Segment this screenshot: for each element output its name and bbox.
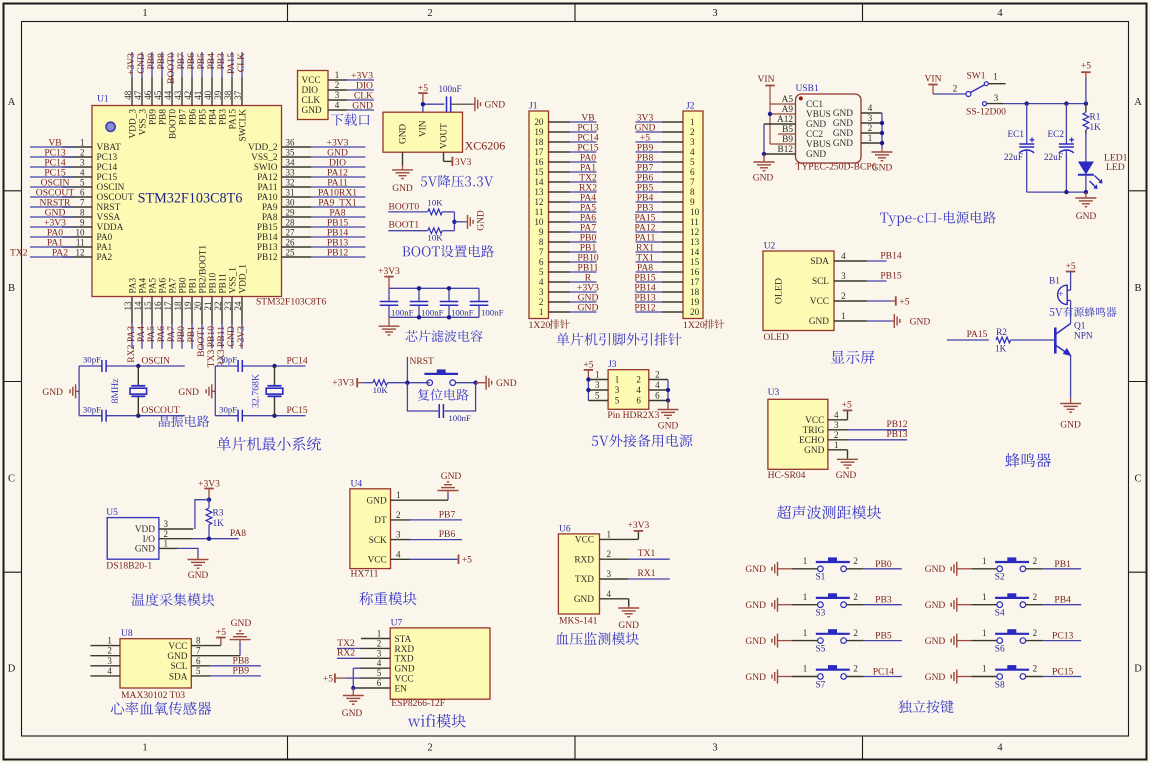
svg-text:VBUS: VBUS xyxy=(806,110,831,120)
wire boot0 to node xyxy=(442,212,456,231)
temp U5 body xyxy=(106,508,159,559)
switch key S2 -> PB1 xyxy=(925,556,1081,583)
svg-text:PB7: PB7 xyxy=(178,109,188,125)
svg-text:32: 32 xyxy=(286,177,295,187)
svg-text:1: 1 xyxy=(690,117,695,127)
mcu U1 pin 34 SWIO xyxy=(254,157,366,173)
mcu U1 pin 47 VSS_3 xyxy=(133,52,149,135)
capacitor EC1 22uF xyxy=(1004,104,1035,193)
download header pin 1 VCC xyxy=(302,70,375,86)
wire boot1 to node xyxy=(442,222,465,231)
svg-text:100nF: 100nF xyxy=(438,84,461,94)
svg-text:GND: GND xyxy=(578,302,599,313)
svg-text:PB14: PB14 xyxy=(257,233,278,243)
svg-text:NRST: NRST xyxy=(410,357,434,367)
svg-text:1: 1 xyxy=(993,72,998,82)
svg-text:VDD_1: VDD_1 xyxy=(238,264,248,294)
j3 left rail xyxy=(586,377,590,400)
svg-text:MKS-141: MKS-141 xyxy=(559,615,598,626)
mcu U1 pin 16 PA6 xyxy=(153,277,169,348)
svg-text:+5: +5 xyxy=(583,360,593,370)
max30102 model xyxy=(121,690,185,701)
svg-text:16: 16 xyxy=(690,267,700,277)
svg-text:GND: GND xyxy=(574,595,594,605)
svg-text:PA12: PA12 xyxy=(257,173,278,183)
mcu U1 pin 2 PC13 xyxy=(30,147,118,163)
header J1 pin 2 xyxy=(539,292,599,307)
mcu U1 pin 8 VSSA xyxy=(30,207,121,223)
caption temp xyxy=(132,593,215,606)
svg-text:2: 2 xyxy=(655,370,660,380)
svg-text:B: B xyxy=(8,283,15,294)
svg-text:U6: U6 xyxy=(559,524,571,534)
svg-text:PA9: PA9 xyxy=(262,203,278,213)
svg-text:GND: GND xyxy=(477,210,487,231)
mcu U1 pin 15 PA5 xyxy=(143,277,159,348)
svg-text:A: A xyxy=(1134,97,1142,108)
max30102 pin name GND xyxy=(167,646,201,662)
ground filter xyxy=(379,317,400,335)
header J1 pin 5 xyxy=(539,262,599,277)
mcu U1 model label xyxy=(256,298,326,308)
svg-text:28: 28 xyxy=(286,217,296,227)
header J2 pin 19 xyxy=(634,292,699,307)
mcu U1 pin 33 PA12 xyxy=(257,167,365,183)
oled model xyxy=(764,333,789,343)
download header pin 3 CLK xyxy=(302,90,375,106)
svg-text:GND: GND xyxy=(925,673,946,683)
power +5 buzzer xyxy=(1066,262,1076,290)
net label PB14 xyxy=(867,250,902,261)
mcu U1 designator xyxy=(97,95,109,105)
svg-text:PC15: PC15 xyxy=(97,173,118,183)
svg-text:U5: U5 xyxy=(106,508,118,518)
svg-text:+5: +5 xyxy=(216,628,226,638)
svg-text:R3: R3 xyxy=(213,509,224,519)
svg-text:1: 1 xyxy=(335,70,340,80)
caption crystal xyxy=(159,415,209,427)
svg-text:GND: GND xyxy=(399,124,409,144)
svg-text:30: 30 xyxy=(286,197,296,207)
svg-text:100nF: 100nF xyxy=(391,307,414,317)
svg-text:3: 3 xyxy=(615,385,620,395)
esp pin name 1 STA xyxy=(377,629,412,645)
svg-text:19: 19 xyxy=(183,301,193,311)
svg-text:26: 26 xyxy=(286,237,296,247)
j3 right rail xyxy=(666,380,670,403)
mcu U1 pin 25 PB12 xyxy=(257,247,366,263)
svg-text:45: 45 xyxy=(153,90,163,100)
svg-text:PB6: PB6 xyxy=(188,109,198,125)
svg-text:GND: GND xyxy=(392,184,413,194)
svg-text:TYPEC-250D-BCP6: TYPEC-250D-BCP6 xyxy=(796,162,877,173)
svg-text:14: 14 xyxy=(534,177,544,187)
svg-text:J2: J2 xyxy=(686,102,695,112)
svg-text:SWCLK: SWCLK xyxy=(238,109,248,142)
temp pin 1 GND xyxy=(135,539,168,555)
svg-text:1: 1 xyxy=(803,628,808,638)
header J1 pin 17 xyxy=(534,142,599,157)
svg-text:21: 21 xyxy=(203,302,213,311)
svg-text:11: 11 xyxy=(535,207,544,217)
blood pin 2 RXD xyxy=(574,549,628,565)
header J1 pin 18 xyxy=(534,132,599,147)
svg-text:GND: GND xyxy=(809,317,829,327)
svg-text:RXD: RXD xyxy=(574,555,594,565)
switch key S3 -> PB3 xyxy=(745,592,901,619)
svg-text:U8: U8 xyxy=(121,629,133,639)
header J1 pin 6 xyxy=(539,252,599,267)
svg-text:4: 4 xyxy=(997,743,1003,754)
mcu U1 pin 23 VSS_1 xyxy=(223,267,239,349)
svg-text:5: 5 xyxy=(539,267,544,277)
usb pad B5 xyxy=(778,125,796,135)
svg-text:GND: GND xyxy=(753,174,774,184)
svg-text:PB9: PB9 xyxy=(233,666,250,677)
mcu U1 pin 43 PB7 xyxy=(173,52,189,125)
oled pin 1 GND xyxy=(809,311,867,327)
usb pad A12 xyxy=(764,115,796,125)
svg-text:5: 5 xyxy=(615,396,620,406)
ultrasonic pin 1 GND xyxy=(804,440,847,456)
ground blood xyxy=(618,599,639,631)
svg-text:2: 2 xyxy=(107,646,112,656)
svg-text:VDD: VDD xyxy=(135,525,155,535)
caption esp xyxy=(408,714,466,728)
hx711 pin 3 SCK xyxy=(369,530,410,546)
svg-text:GND: GND xyxy=(833,109,853,119)
esp pin name 2 RXD xyxy=(377,638,415,654)
svg-text:PA8: PA8 xyxy=(262,213,278,223)
mcu U1 pin 3 PC14 xyxy=(30,157,118,173)
svg-text:PA0: PA0 xyxy=(97,233,113,243)
svg-text:VCC: VCC xyxy=(805,416,824,426)
ultrasonic pin 4 VCC xyxy=(805,410,847,426)
svg-text:2: 2 xyxy=(335,80,340,90)
svg-text:GND: GND xyxy=(178,388,199,398)
svg-text:PA7: PA7 xyxy=(168,277,178,293)
svg-text:48: 48 xyxy=(123,90,133,100)
svg-text:ESP8266-12F: ESP8266-12F xyxy=(391,698,445,709)
svg-text:S8: S8 xyxy=(995,680,1005,690)
j3 row 2 xyxy=(588,380,668,395)
svg-text:VCC: VCC xyxy=(395,675,414,685)
svg-text:35: 35 xyxy=(286,147,296,157)
header J1 pin 10 xyxy=(534,212,596,227)
usb model xyxy=(796,162,877,173)
wire regulator vout xyxy=(444,152,453,161)
usb pin name GND xyxy=(806,150,826,160)
svg-text:PA1: PA1 xyxy=(97,243,113,253)
ground usb right xyxy=(872,152,893,174)
svg-text:2: 2 xyxy=(853,628,858,638)
net label PB13 xyxy=(848,430,908,440)
svg-text:30pF: 30pF xyxy=(219,404,237,414)
header J1 pin 4 xyxy=(539,272,597,287)
svg-text:4: 4 xyxy=(868,103,873,113)
svg-text:2: 2 xyxy=(1033,592,1038,602)
ground ultrasonic xyxy=(836,450,858,481)
svg-text:PB12: PB12 xyxy=(257,253,278,263)
svg-text:44: 44 xyxy=(163,90,173,100)
svg-text:GND: GND xyxy=(910,317,931,327)
svg-text:2: 2 xyxy=(80,147,85,157)
esp pin name 5 VCC xyxy=(377,668,414,684)
ultrasonic pin 3 TRIG xyxy=(803,420,848,436)
capacitor 100nF filter 2 xyxy=(410,286,444,319)
svg-text:1K: 1K xyxy=(213,519,225,529)
power +5 j3 xyxy=(583,360,593,379)
net label PC14 xyxy=(287,356,308,366)
caption buzzer xyxy=(1005,453,1051,467)
power +5 ultrasonic xyxy=(842,401,853,420)
capacitor EC2 22uF xyxy=(1044,104,1074,193)
regulator U9 body xyxy=(383,112,463,152)
svg-text:VIN: VIN xyxy=(758,75,775,85)
wire regulator gnd pin xyxy=(402,152,404,165)
capacitor 30pF bottom left xyxy=(83,404,106,421)
svg-text:10K: 10K xyxy=(427,197,443,207)
mcu U1 pin 26 PB13 xyxy=(257,237,366,253)
net label OSCOUT xyxy=(142,406,180,416)
svg-text:40: 40 xyxy=(203,90,213,100)
oled pin 2 VCC xyxy=(810,291,867,307)
svg-text:PB7: PB7 xyxy=(439,509,456,520)
usb pin name CC2 xyxy=(806,130,823,140)
svg-text:PB4: PB4 xyxy=(208,109,218,125)
svg-text:B: B xyxy=(1134,283,1141,294)
svg-text:GND: GND xyxy=(42,388,63,398)
svg-text:RX2: RX2 xyxy=(337,648,355,659)
mcu U1 pin 41 PB5 xyxy=(193,52,209,125)
svg-text:OLED: OLED xyxy=(774,278,785,304)
header J2 body xyxy=(683,102,703,319)
svg-text:41: 41 xyxy=(193,91,203,100)
svg-text:XC6206: XC6206 xyxy=(465,139,506,153)
usb pin name GND xyxy=(806,120,826,130)
esp model xyxy=(391,698,445,709)
ground oled xyxy=(867,314,930,328)
svg-text:PB2/BOOT1: PB2/BOOT1 xyxy=(198,245,208,294)
svg-text:PA8: PA8 xyxy=(230,528,246,539)
svg-text:SCL: SCL xyxy=(170,662,187,672)
svg-text:SW1: SW1 xyxy=(967,71,986,81)
header J1 pin 8 xyxy=(539,232,597,247)
svg-text:2: 2 xyxy=(1033,556,1038,566)
mcu U1 pin 17 PA7 xyxy=(163,277,179,348)
svg-text:25: 25 xyxy=(286,247,296,257)
mcu U1 pin 36 VDD_2 xyxy=(248,137,365,153)
header J2 pin 15 xyxy=(636,252,700,267)
svg-text:+3V3: +3V3 xyxy=(378,267,400,277)
svg-text:PC14: PC14 xyxy=(287,356,308,366)
svg-text:2: 2 xyxy=(953,84,958,94)
svg-text:GND: GND xyxy=(745,637,766,647)
svg-text:19: 19 xyxy=(690,297,700,307)
svg-text:7: 7 xyxy=(539,247,544,257)
svg-text:3: 3 xyxy=(377,648,382,658)
svg-text:+5: +5 xyxy=(899,297,909,307)
svg-text:31: 31 xyxy=(286,187,295,197)
svg-text:J3: J3 xyxy=(608,360,617,370)
regulator pin name VOUT xyxy=(440,123,450,149)
svg-text:43: 43 xyxy=(173,90,183,100)
header J1 pin 7 xyxy=(539,242,597,257)
svg-text:VIN: VIN xyxy=(925,74,942,84)
mcu U1 pin 42 PB6 xyxy=(183,52,199,125)
svg-text:PB10: PB10 xyxy=(208,272,218,293)
svg-text:+3V3: +3V3 xyxy=(236,326,247,348)
svg-text:U2: U2 xyxy=(764,242,776,252)
svg-text:GND: GND xyxy=(833,139,853,149)
svg-text:22: 22 xyxy=(213,302,223,311)
svg-text:1X20: 1X20 xyxy=(529,320,551,331)
header J2 pin 9 xyxy=(636,192,696,207)
svg-text:46: 46 xyxy=(143,90,153,100)
svg-text:1: 1 xyxy=(615,375,620,385)
svg-text:23: 23 xyxy=(223,301,233,311)
svg-text:DS18B20-1: DS18B20-1 xyxy=(106,560,152,571)
svg-text:15: 15 xyxy=(690,257,700,267)
svg-text:+5: +5 xyxy=(1081,62,1091,72)
svg-text:22uF: 22uF xyxy=(1044,153,1063,163)
svg-text:2: 2 xyxy=(377,638,382,648)
switch key S5 -> PB5 xyxy=(745,628,901,655)
svg-text:PA15: PA15 xyxy=(967,330,988,340)
svg-text:1: 1 xyxy=(595,370,600,380)
svg-text:RXD: RXD xyxy=(395,645,415,655)
svg-text:OSCIN: OSCIN xyxy=(97,183,125,193)
header J2 pin 18 xyxy=(634,282,699,297)
svg-text:4: 4 xyxy=(636,385,641,395)
svg-text:4: 4 xyxy=(107,666,112,676)
svg-text:32.768K: 32.768K xyxy=(251,374,262,408)
svg-text:PC14: PC14 xyxy=(97,163,118,173)
svg-text:SCK: SCK xyxy=(369,536,387,546)
led LED1 xyxy=(1078,134,1128,192)
svg-text:100nF: 100nF xyxy=(451,307,474,317)
svg-text:GND: GND xyxy=(745,673,766,683)
mcu U1 pin 40 PB4 xyxy=(203,52,219,125)
svg-text:EC1: EC1 xyxy=(1007,130,1024,140)
resistor 10K reset xyxy=(373,380,389,395)
switch reset button xyxy=(424,369,458,385)
svg-text:A: A xyxy=(8,97,16,108)
svg-text:PA4: PA4 xyxy=(138,277,148,293)
net label PB15 xyxy=(867,270,902,281)
svg-text:PB14: PB14 xyxy=(880,250,902,261)
svg-text:8: 8 xyxy=(80,207,85,217)
svg-text:2: 2 xyxy=(1033,628,1038,638)
svg-text:STM32F103C8T6: STM32F103C8T6 xyxy=(138,191,243,207)
svg-text:9: 9 xyxy=(539,227,544,237)
svg-text:TXD: TXD xyxy=(575,575,594,585)
mcu U1 pin 32 PA11 xyxy=(258,177,366,193)
svg-text:20: 20 xyxy=(690,307,700,317)
svg-text:STM32F103C8T6: STM32F103C8T6 xyxy=(256,298,326,308)
svg-text:2: 2 xyxy=(427,8,432,19)
svg-text:PB15: PB15 xyxy=(880,270,902,281)
svg-text:VOUT: VOUT xyxy=(440,123,450,149)
header J2 pin 16 xyxy=(636,262,700,277)
capacitor 30pF top right xyxy=(219,355,242,372)
svg-text:GND: GND xyxy=(925,637,946,647)
crystal rails right xyxy=(215,364,305,418)
svg-text:17: 17 xyxy=(163,301,173,311)
svg-text:4: 4 xyxy=(690,147,695,157)
svg-text:3V3: 3V3 xyxy=(455,158,472,168)
svg-text:PB11: PB11 xyxy=(218,273,228,294)
j3 row 1 xyxy=(588,370,668,385)
header J1 pin 1 xyxy=(539,302,599,317)
svg-text:PA10: PA10 xyxy=(257,193,278,203)
power +5 led xyxy=(1081,62,1091,104)
svg-text:18: 18 xyxy=(534,137,544,147)
regulator model xyxy=(465,139,506,153)
header J1 body xyxy=(529,102,549,319)
ground regulator cap xyxy=(472,97,505,111)
svg-text:NPN: NPN xyxy=(1074,331,1093,341)
blood pin 4 GND xyxy=(574,589,629,605)
svg-text:SS-12D00: SS-12D00 xyxy=(966,106,1006,117)
header J2 model xyxy=(683,319,724,331)
svg-text:1: 1 xyxy=(982,592,987,602)
mcu U1 name xyxy=(138,191,243,207)
temp pin 3 VDD xyxy=(135,519,169,535)
svg-text:PB6: PB6 xyxy=(439,529,456,540)
svg-text:4: 4 xyxy=(335,100,340,110)
ground max30102 xyxy=(191,619,251,656)
capacitor 30pF bottom right xyxy=(219,404,242,421)
svg-text:2: 2 xyxy=(853,664,858,674)
svg-text:S3: S3 xyxy=(816,609,826,619)
svg-text:1: 1 xyxy=(539,307,544,317)
svg-text:PB1: PB1 xyxy=(188,277,198,293)
usb pin name GND right xyxy=(833,109,853,119)
svg-text:6: 6 xyxy=(655,391,660,401)
svg-text:13: 13 xyxy=(123,301,133,311)
resistor 10K boot1 xyxy=(427,228,443,243)
svg-text:GND: GND xyxy=(231,619,252,629)
caption typec xyxy=(880,211,996,226)
svg-text:GND: GND xyxy=(925,565,946,575)
mcu U1 pin 11 PA1 xyxy=(30,237,113,253)
svg-text:TX2: TX2 xyxy=(10,247,28,258)
svg-text:HC-SR04: HC-SR04 xyxy=(768,470,806,481)
usb pin name GND right xyxy=(833,119,853,129)
svg-text:3: 3 xyxy=(607,569,612,579)
mcu U1 pin 48 VDD_3 xyxy=(123,52,139,138)
mcu U1 pin 29 PA8 xyxy=(262,207,366,223)
svg-text:3: 3 xyxy=(164,519,169,529)
hx711 U4 body xyxy=(350,479,391,568)
svg-text:CLK: CLK xyxy=(236,53,247,72)
svg-text:OSCOUT: OSCOUT xyxy=(142,406,180,416)
net label PB7 xyxy=(410,509,462,520)
svg-text:PA6: PA6 xyxy=(158,277,168,293)
svg-text:4: 4 xyxy=(841,251,846,261)
svg-text:PB0: PB0 xyxy=(875,559,892,570)
switch key S1 -> PB0 xyxy=(745,556,901,583)
svg-text:GND: GND xyxy=(806,150,826,160)
header J2 pin 14 xyxy=(636,242,700,257)
ground crystal left xyxy=(42,384,79,398)
svg-text:R1: R1 xyxy=(1090,112,1101,122)
power +5 esp xyxy=(323,673,390,684)
esp pin6 wire xyxy=(353,687,390,689)
svg-text:4: 4 xyxy=(80,167,85,177)
capacitor 100nF regulator xyxy=(438,84,461,112)
